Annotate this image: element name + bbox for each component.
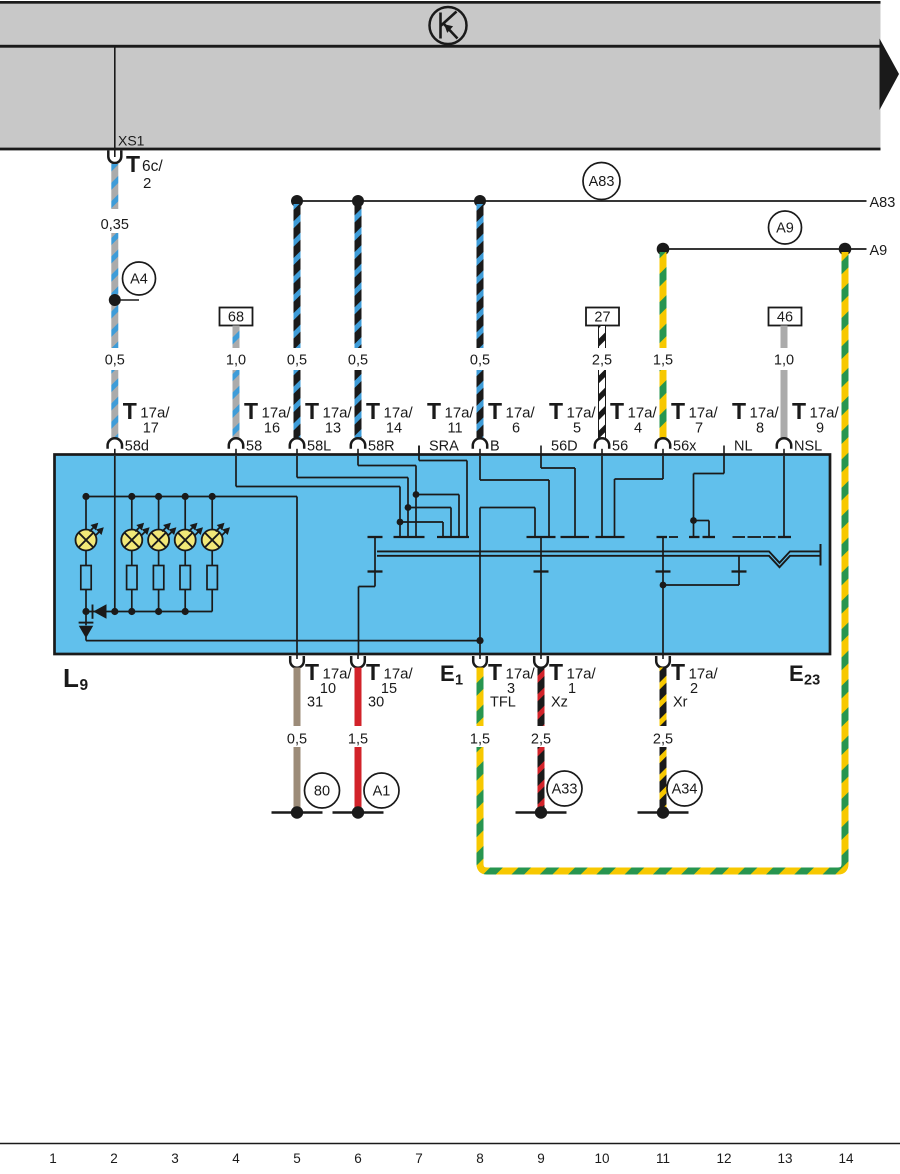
pin T17a/11 (SRA) [419, 398, 475, 456]
junction bus/R1 [82, 608, 89, 615]
contact tC [596, 536, 625, 538]
resistor R1 [81, 566, 91, 612]
wire pin 15 to ground (red 1,5) [355, 668, 362, 809]
junction A9/loop [839, 243, 852, 256]
wire A83 to T17a/13 (black-blue 0,5) [294, 204, 301, 438]
svg-text:56x: 56x [673, 439, 697, 455]
junction bus/R2 [128, 608, 135, 615]
pin T17a/10 (31) [290, 654, 352, 711]
junction bus/58d [111, 608, 118, 615]
svg-text:1: 1 [49, 1151, 57, 1166]
svg-text:17a/: 17a/ [323, 405, 353, 422]
value label 1,5 (56x) [645, 348, 681, 370]
resistor R2 [127, 566, 137, 612]
wire 46 to T17a/9 (gray 1,0) [781, 326, 788, 439]
contact tA [527, 536, 556, 538]
wire contact t1 to pin 15 (terminal 30) [359, 537, 376, 656]
svg-text:0,5: 0,5 [470, 353, 490, 369]
label A9 (right) [870, 243, 888, 259]
value label 0,5 (58R) [340, 348, 376, 370]
svg-text:6: 6 [354, 1151, 362, 1166]
svg-text:17a/: 17a/ [689, 405, 719, 422]
junction NL branch [690, 517, 697, 524]
wire pin 58R route [358, 456, 459, 537]
pin T17a/14 (58R) [351, 398, 414, 456]
svg-text:A9: A9 [776, 221, 794, 237]
ground (31) [272, 806, 323, 818]
value label 1,5 (TFL) [470, 732, 490, 748]
svg-text:3: 3 [171, 1151, 179, 1166]
svg-text:58: 58 [246, 439, 262, 455]
svg-text:9: 9 [80, 677, 89, 694]
svg-text:T: T [244, 398, 258, 424]
value label 2,5 (56) [584, 348, 620, 370]
svg-text:17a/: 17a/ [323, 666, 353, 683]
junction 58L branch [405, 504, 412, 511]
svg-text:L: L [63, 663, 79, 693]
svg-text:A4: A4 [130, 272, 148, 288]
svg-text:17a/: 17a/ [384, 405, 414, 422]
pin T17a/17 (58d) [108, 398, 171, 456]
contact t1 lower tick [368, 570, 383, 572]
pin T17a/13 (58L) [290, 398, 353, 456]
symbol K (circled K with arrow) [430, 7, 467, 44]
svg-text:1: 1 [455, 673, 463, 689]
svg-text:80: 80 [314, 784, 330, 800]
wire A83 to T17a/14 (black-blue 0,5) [355, 204, 362, 438]
contact Xz lower tick [534, 570, 549, 572]
reference A4 [123, 262, 156, 295]
svg-text:68: 68 [228, 310, 244, 326]
wire T6c/2 to T17a/17 (gray-blue 0,35/0,5) [95, 164, 135, 438]
lamp L3 (illumination bulb) [148, 497, 176, 566]
svg-text:2,5: 2,5 [592, 353, 612, 369]
svg-text:2,5: 2,5 [653, 732, 673, 748]
wire pin 56 route [601, 456, 603, 537]
svg-text:NL: NL [734, 439, 753, 455]
label E23 [789, 661, 820, 689]
value label 0,35 [101, 217, 129, 233]
value label 2,5 (Xz) [531, 732, 551, 748]
svg-text:T: T [488, 659, 502, 685]
wire 58d pin to lower bus [114, 456, 116, 612]
svg-text:2,5: 2,5 [531, 732, 551, 748]
svg-text:2: 2 [110, 1151, 118, 1166]
pin T17a/8 (NL) [724, 398, 780, 456]
reference A1 [364, 773, 399, 808]
svg-text:T: T [427, 398, 441, 424]
svg-text:17a/: 17a/ [445, 405, 475, 422]
svg-text:46: 46 [777, 310, 793, 326]
wire lamp bus (top) [86, 496, 297, 498]
svg-text:6c/: 6c/ [142, 158, 163, 175]
track scale line [0, 1143, 900, 1145]
svg-text:8: 8 [756, 421, 764, 437]
wire A9 to T17a/7 (yellow-green 1,5) [660, 252, 667, 438]
switch slider bar (double line with break) [377, 544, 821, 567]
svg-text:11: 11 [447, 421, 462, 437]
svg-text:12: 12 [716, 1151, 731, 1166]
svg-text:A33: A33 [552, 782, 578, 798]
reference A34 [667, 771, 702, 806]
wire TFL loop to A9 (yellow-green 1,5) [462, 252, 845, 871]
svg-text:T: T [305, 659, 319, 685]
contact tD [657, 536, 668, 538]
ground (Xr) [638, 806, 689, 818]
svg-text:58d: 58d [125, 439, 149, 455]
pin T17a/15 (30) [351, 654, 413, 711]
svg-text:T: T [126, 151, 140, 177]
contact tF [703, 536, 716, 538]
junction TFL node [476, 637, 483, 644]
wire pin 58 route [236, 456, 443, 537]
svg-text:SRA: SRA [429, 439, 459, 455]
reference A83 circle [583, 163, 620, 200]
terminal box 27 [586, 308, 619, 326]
svg-text:17a/: 17a/ [262, 405, 292, 422]
lamp L5 (illumination bulb) [202, 497, 230, 566]
wire pin NL route [694, 455, 725, 537]
svg-text:27: 27 [594, 310, 610, 326]
svg-text:6: 6 [512, 421, 520, 437]
dashed coupling segments [669, 536, 776, 538]
junction 58R branch [413, 491, 420, 498]
wire pin 56x route [615, 456, 664, 537]
wire pin 58L route [297, 456, 451, 537]
svg-text:17a/: 17a/ [567, 666, 597, 683]
ground (Xz) [516, 806, 567, 818]
svg-text:5: 5 [293, 1151, 301, 1166]
svg-text:17a/: 17a/ [506, 405, 536, 422]
svg-text:T: T [305, 398, 319, 424]
wire 27 to T17a/4 (black-white 2,5) [599, 326, 606, 439]
svg-text:0,5: 0,5 [105, 353, 125, 369]
resistor R3 [153, 566, 163, 612]
wire bottom rail to TFL node [86, 640, 480, 642]
pin T17a/16 (58) [229, 398, 292, 456]
svg-text:T: T [671, 398, 685, 424]
label A83 (right) [870, 195, 896, 211]
svg-text:TFL: TFL [490, 695, 516, 711]
svg-text:17a/: 17a/ [384, 666, 414, 683]
junction bus/lamp3 [155, 493, 162, 500]
junction A9/56x [657, 243, 670, 256]
svg-text:30: 30 [368, 695, 384, 711]
ground (30) [333, 806, 384, 818]
pin T17a/4 (56) [595, 398, 658, 456]
svg-text:T: T [549, 659, 563, 685]
svg-text:1,5: 1,5 [653, 353, 673, 369]
svg-text:4: 4 [634, 421, 642, 437]
svg-text:T: T [549, 398, 563, 424]
svg-text:1,0: 1,0 [774, 353, 794, 369]
reference A9 circle [769, 211, 802, 244]
svg-text:23: 23 [804, 673, 820, 689]
reference 80 [305, 773, 340, 808]
svg-text:2: 2 [143, 175, 151, 192]
wire contact tD to pin 2 (Xr) [662, 537, 664, 656]
svg-text:31: 31 [307, 695, 323, 711]
svg-text:T: T [671, 659, 685, 685]
svg-text:0,5: 0,5 [287, 732, 307, 748]
svg-text:16: 16 [264, 421, 280, 437]
svg-text:56: 56 [612, 439, 628, 455]
net A9 line [663, 248, 867, 250]
wire pin 2 to ground (black-yellow 2,5) [660, 668, 667, 809]
wire pin SRA route [419, 446, 467, 538]
junction A83/58R [352, 195, 364, 207]
junction bus/lamp5 [209, 493, 216, 500]
svg-text:2: 2 [690, 681, 698, 697]
svg-text:17a/: 17a/ [750, 405, 780, 422]
junction bus/lamp4 [182, 493, 189, 500]
svg-text:T: T [366, 659, 380, 685]
pin T17a/2 (Xr) [656, 654, 718, 711]
terminal box 68 [220, 308, 253, 326]
pin T17a/3 (TFL) [473, 654, 535, 711]
lamp L1 (illumination bulb) [76, 497, 104, 566]
label XS1 [118, 133, 145, 149]
junction A83/B [474, 195, 486, 207]
value label 1,5 (30) [348, 732, 368, 748]
node A4 junction [109, 294, 139, 306]
contact t1 [368, 536, 383, 538]
pin T17a/7 (56x) [656, 398, 719, 456]
svg-text:7: 7 [415, 1151, 423, 1166]
label E1 [440, 661, 463, 689]
contact t3 [437, 536, 469, 538]
svg-text:9: 9 [816, 421, 824, 437]
svg-text:A9: A9 [870, 243, 888, 259]
svg-text:E: E [440, 661, 455, 686]
svg-text:Xr: Xr [673, 695, 688, 711]
svg-text:17a/: 17a/ [567, 405, 597, 422]
svg-text:1: 1 [568, 681, 576, 697]
pin T17a/6 (B) [473, 398, 536, 456]
svg-text:14: 14 [838, 1151, 854, 1166]
svg-text:Xz: Xz [551, 695, 568, 711]
junction A83/58L [291, 195, 303, 207]
diode D1 (series, pointing left) [93, 604, 107, 619]
wire pin NSL route [783, 456, 785, 537]
lamp L2 (illumination bulb) [121, 497, 149, 566]
wire pin 31 route (lamp bus to pin 10) [296, 497, 298, 656]
value label 0,5 (B) [462, 348, 498, 370]
svg-text:13: 13 [777, 1151, 792, 1166]
contact bar lower tick (right) [732, 570, 747, 572]
svg-text:10: 10 [594, 1151, 609, 1166]
junction 58 branch [397, 519, 404, 526]
svg-text:13: 13 [325, 421, 341, 437]
wire TFL branch route [480, 508, 535, 656]
svg-text:NSL: NSL [794, 439, 822, 455]
svg-text:T: T [488, 398, 502, 424]
component box L9/E1/E23 (switch unit) [55, 455, 831, 655]
svg-text:T: T [366, 398, 380, 424]
junction bus/R4 [182, 608, 189, 615]
value label 1,0 (NSL) [766, 348, 802, 370]
value label 0,5 (58d) [97, 348, 133, 370]
wire A83 to T17a/6 (black-blue 0,5) [477, 204, 484, 438]
resistor R4 [180, 566, 190, 612]
harness exit arrow (right) [880, 39, 900, 111]
terminal box 46 [769, 308, 802, 326]
svg-text:T: T [792, 398, 806, 424]
value label 0,5 (58L) [279, 348, 315, 370]
pin T17a/5 (56D) [541, 398, 597, 456]
wire Xr branch to bar [663, 557, 739, 586]
svg-text:11: 11 [656, 1151, 670, 1166]
svg-text:0,35: 0,35 [101, 217, 129, 233]
contact Xr lower tick [656, 570, 671, 572]
track numbers 1-14 [49, 1151, 854, 1166]
svg-text:A34: A34 [672, 782, 698, 798]
reference A33 [547, 771, 582, 806]
svg-text:8: 8 [476, 1151, 484, 1166]
contact t2 [394, 536, 425, 538]
wire lower bus [86, 611, 212, 613]
svg-text:T: T [610, 398, 624, 424]
wire pin 10 to ground (brown 0,5) [294, 668, 301, 809]
svg-text:58R: 58R [368, 439, 395, 455]
svg-text:17a/: 17a/ [810, 405, 840, 422]
svg-text:T: T [123, 398, 137, 424]
svg-text:17a/: 17a/ [628, 405, 658, 422]
junction Xr branch [660, 582, 667, 589]
svg-text:E: E [789, 661, 804, 686]
connector T6c/2 [108, 151, 163, 193]
junction bus/lamp2 [128, 493, 135, 500]
svg-text:14: 14 [386, 421, 402, 437]
wire contact tA to pin 1 (Xz) [540, 537, 542, 656]
svg-text:0,5: 0,5 [287, 353, 307, 369]
wire pin 1 to ground (black-red 2,5) [538, 668, 545, 809]
node XS1 branch line [114, 46, 116, 157]
lamp L4 (illumination bulb) [175, 497, 203, 566]
svg-text:7: 7 [695, 421, 703, 437]
pin T17a/1 (Xz) [534, 654, 596, 711]
svg-text:T: T [732, 398, 746, 424]
junction bus/R3 [155, 608, 162, 615]
wire pin 56D route [541, 455, 575, 537]
svg-text:56D: 56D [551, 439, 578, 455]
svg-text:1,5: 1,5 [348, 732, 368, 748]
svg-text:A1: A1 [373, 784, 391, 800]
net A83 line [297, 200, 867, 202]
svg-text:4: 4 [232, 1151, 240, 1166]
svg-text:58L: 58L [307, 439, 331, 455]
svg-text:B: B [490, 439, 500, 455]
svg-text:17a/: 17a/ [140, 405, 170, 422]
contact tB [561, 536, 590, 538]
value label 2,5 (Xr) [653, 732, 673, 748]
junction bus/lamp1 [82, 493, 89, 500]
svg-text:A83: A83 [870, 195, 896, 211]
svg-text:XS1: XS1 [118, 133, 145, 149]
svg-text:17a/: 17a/ [689, 666, 719, 683]
svg-text:17: 17 [143, 421, 159, 437]
svg-text:1,5: 1,5 [470, 732, 490, 748]
svg-text:9: 9 [537, 1151, 545, 1166]
svg-text:0,5: 0,5 [348, 353, 368, 369]
wire pin B route [480, 456, 549, 537]
value label 1,0 (58) [218, 348, 254, 370]
value label 0,5 (31) [287, 732, 307, 748]
label L9 [63, 663, 89, 694]
svg-text:17a/: 17a/ [506, 666, 536, 683]
harness band (gray bus duct) [0, 1, 881, 150]
diode D2 (to ground rail, pointing down) [79, 612, 94, 641]
svg-text:5: 5 [573, 421, 581, 437]
wire 68 to T17a/16 (gray-blue 1,0) [233, 326, 240, 439]
svg-text:A83: A83 [589, 174, 615, 190]
resistor R5 [207, 566, 217, 612]
contact tE [689, 536, 700, 538]
contact tNSL [778, 536, 791, 538]
svg-text:1,0: 1,0 [226, 353, 246, 369]
pin T17a/9 (NSL) [777, 398, 840, 456]
